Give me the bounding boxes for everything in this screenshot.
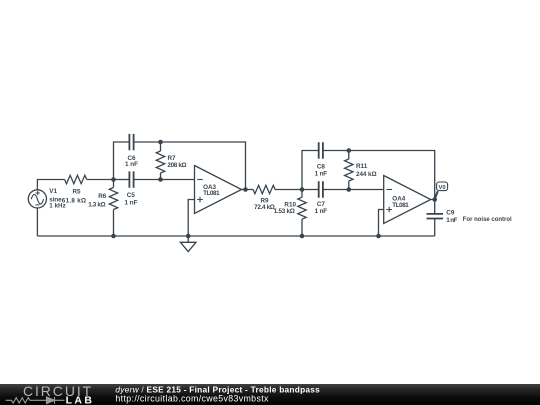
node F junction: [347, 148, 352, 153]
wire: node A up to C6: [114, 142, 130, 180]
wire: C5 to node B: [134, 179, 161, 181]
capacitor C7: [319, 181, 323, 197]
svg-text:V1: V1: [49, 188, 57, 195]
junction R10 at rail: [300, 234, 305, 239]
node B lower junction: [158, 177, 163, 182]
node E junction: [300, 187, 305, 192]
svg-text:For noise control: For noise control: [463, 216, 512, 223]
footer bar: [0, 384, 540, 405]
op-amp OA3: [195, 166, 242, 214]
capacitor C8: [319, 142, 323, 158]
svg-text:61.8 kΩ: 61.8 kΩ: [62, 197, 86, 204]
svg-text:244 kΩ: 244 kΩ: [356, 171, 377, 178]
capacitor C5: [129, 171, 133, 187]
output flag V0: [435, 182, 448, 199]
resistor R7: [156, 142, 164, 180]
svg-text:1 nF: 1 nF: [125, 161, 138, 168]
resistor R6: [109, 180, 117, 237]
svg-text:1 nF: 1 nF: [315, 208, 328, 215]
svg-text:C8: C8: [317, 163, 326, 170]
svg-text:1.53 kΩ: 1.53 kΩ: [274, 208, 295, 215]
svg-text:1 nF: 1 nF: [446, 217, 457, 224]
wire: C8 to node F: [323, 150, 349, 152]
svg-text:C5: C5: [127, 192, 136, 199]
svg-text:1 nF: 1 nF: [125, 199, 138, 206]
svg-text:V0: V0: [439, 185, 446, 191]
capacitor C9: [427, 200, 444, 237]
node V0 junction: [432, 197, 437, 202]
resistor R9: [253, 185, 275, 193]
svg-text:TL081: TL081: [203, 190, 220, 197]
wire: node E up to C8: [302, 151, 319, 190]
CircuitLab logo circuit symbol (resistor and diode): [6, 397, 65, 404]
svg-text:R5: R5: [72, 188, 81, 195]
wire: node A to C5: [114, 179, 130, 181]
voltage source V1: [28, 190, 46, 208]
svg-text:http://circuitlab.com/cwe5v83v: http://circuitlab.com/cwe5v83vmbstx: [115, 394, 269, 404]
svg-text:R6: R6: [98, 193, 107, 200]
svg-text:1 nF: 1 nF: [315, 171, 328, 178]
wire: OA4 noninverting input to rail: [379, 210, 384, 237]
node D junction on rail: [111, 234, 116, 239]
svg-text:R7: R7: [168, 155, 177, 162]
svg-text:TL081: TL081: [392, 202, 409, 209]
svg-text:R11: R11: [356, 163, 368, 170]
wire: OA3 output to node C: [242, 189, 246, 191]
wire: node B to OA3 inverting input: [161, 179, 195, 181]
ground: [180, 236, 196, 252]
wire: R9 to node E: [275, 189, 302, 191]
node A junction: [111, 177, 116, 182]
resistor R11: [345, 151, 353, 190]
svg-text:LAB: LAB: [66, 395, 95, 405]
svg-text:1.3 kΩ: 1.3 kΩ: [88, 201, 105, 208]
wire: V1 bottom to rail: [36, 208, 38, 236]
junction OA4 noninverting at rail: [376, 234, 381, 239]
wire: ground rail: [37, 235, 434, 237]
svg-text:C9: C9: [446, 210, 455, 217]
resistor R5: [65, 175, 87, 183]
resistor R10: [298, 190, 306, 237]
wire: node B to OA3 feedback corner: [161, 142, 246, 190]
wire: C7 to node G: [323, 189, 349, 191]
wire: OA3 noninverting input to rail: [188, 200, 194, 237]
op-amp OA4: [384, 176, 431, 224]
svg-text:208 kΩ: 208 kΩ: [167, 162, 186, 169]
wire: node F to OA4 feedback corner: [349, 151, 435, 200]
junction at ground: [186, 234, 191, 239]
wire: R5 to node A: [87, 179, 114, 181]
node C junction: [243, 187, 248, 192]
node G junction: [347, 187, 352, 192]
capacitor C6: [129, 134, 133, 150]
node B top junction: [158, 140, 163, 145]
wire: node G to OA4 inverting input: [349, 189, 384, 191]
svg-text:72.4 kΩ: 72.4 kΩ: [254, 204, 275, 211]
wire: OA4 output to node V0: [431, 199, 435, 201]
wire: node E to C7: [302, 189, 319, 191]
wire: C6 to node B: [134, 141, 161, 143]
wire: V1 top to R5: [37, 180, 64, 190]
wire: node C to R9: [246, 189, 254, 191]
